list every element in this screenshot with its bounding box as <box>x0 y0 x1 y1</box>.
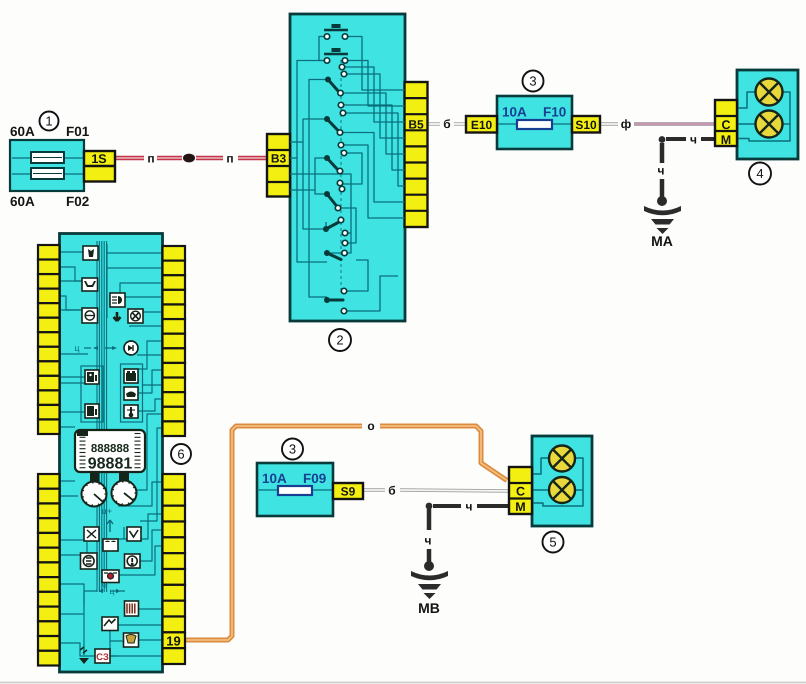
svg-text:ч: ч <box>658 164 665 178</box>
svg-text:F09: F09 <box>303 471 326 486</box>
svg-text:3: 3 <box>529 74 536 89</box>
svg-text:M: M <box>515 500 525 514</box>
svg-text:б: б <box>388 484 395 498</box>
svg-text:C: C <box>721 118 730 132</box>
svg-text:2: 2 <box>336 333 343 348</box>
svg-text:60A: 60A <box>10 124 35 139</box>
svg-text:о: о <box>367 419 374 433</box>
svg-text:ч: ч <box>102 581 106 590</box>
svg-text:F02: F02 <box>66 194 89 209</box>
svg-text:ч: ч <box>425 534 432 548</box>
svg-text:E10: E10 <box>471 118 493 132</box>
svg-text:ф: ф <box>621 117 632 131</box>
svg-text:ч: ч <box>466 500 473 514</box>
svg-text:10A: 10A <box>262 471 287 486</box>
svg-text:п: п <box>226 152 233 166</box>
svg-text:888888: 888888 <box>91 443 130 455</box>
svg-text:ц+: ц+ <box>102 506 112 516</box>
svg-text:п: п <box>147 152 154 166</box>
svg-text:F10: F10 <box>543 105 566 120</box>
svg-text:МА: МА <box>651 233 673 249</box>
svg-text:S10: S10 <box>575 118 597 132</box>
svg-text:S9: S9 <box>341 485 356 499</box>
svg-text:M: M <box>721 133 731 147</box>
svg-text:1: 1 <box>45 114 52 129</box>
svg-text:5: 5 <box>549 535 556 550</box>
svg-text:10A: 10A <box>502 105 527 120</box>
svg-text:6: 6 <box>177 447 184 462</box>
svg-text:C: C <box>516 485 525 499</box>
svg-text:ц: ц <box>74 343 79 353</box>
svg-text:б: б <box>443 117 450 131</box>
svg-text:4: 4 <box>756 166 763 181</box>
svg-text:B5: B5 <box>408 118 424 132</box>
svg-text:F01: F01 <box>66 124 90 139</box>
svg-text:СЗ: СЗ <box>96 652 109 663</box>
svg-text:19: 19 <box>166 634 180 649</box>
svg-text:3: 3 <box>289 442 296 457</box>
svg-text:60A: 60A <box>10 194 35 209</box>
svg-text:1S: 1S <box>91 152 106 166</box>
svg-text:МВ: МВ <box>418 600 440 616</box>
svg-text:ц: ц <box>110 587 115 596</box>
svg-text:ч: ч <box>690 133 697 147</box>
svg-text:B3: B3 <box>271 152 287 166</box>
svg-text:98881: 98881 <box>88 456 133 473</box>
